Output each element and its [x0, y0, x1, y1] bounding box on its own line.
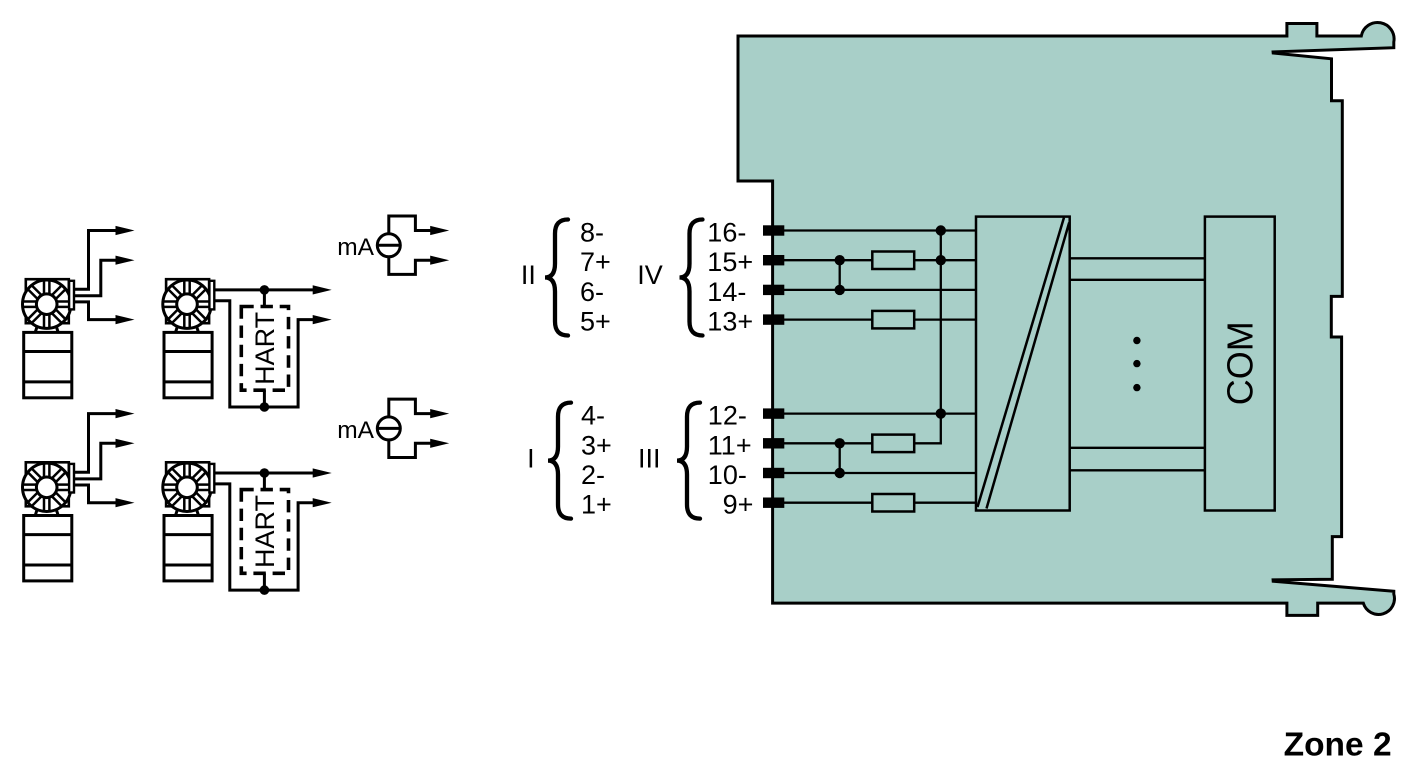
svg-text:mA: mA: [337, 234, 374, 261]
svg-text:16-: 16-: [707, 218, 746, 248]
svg-text:6-: 6-: [580, 277, 604, 307]
svg-text:14-: 14-: [707, 277, 746, 307]
svg-text:II: II: [521, 260, 536, 290]
svg-text:III: III: [638, 443, 661, 473]
svg-text:8-: 8-: [580, 218, 604, 248]
svg-text:5+: 5+: [580, 307, 611, 337]
svg-text:Zone 2: Zone 2: [1284, 727, 1392, 764]
svg-text:10-: 10-: [708, 460, 747, 490]
svg-text:IV: IV: [637, 260, 663, 290]
svg-text:1+: 1+: [581, 490, 612, 520]
svg-text:mA: mA: [337, 417, 374, 444]
svg-text:4-: 4-: [581, 401, 605, 431]
svg-text:I: I: [527, 443, 535, 473]
svg-text:HART: HART: [250, 312, 280, 385]
svg-text:9+: 9+: [723, 490, 754, 520]
svg-text:2-: 2-: [581, 460, 605, 490]
svg-text:7+: 7+: [580, 247, 611, 277]
svg-text:COM: COM: [1219, 321, 1260, 405]
svg-text:11+: 11+: [708, 430, 752, 460]
svg-text:15+: 15+: [707, 247, 753, 277]
svg-text:12-: 12-: [708, 401, 747, 431]
svg-text:HART: HART: [250, 495, 280, 568]
svg-text:13+: 13+: [707, 307, 753, 337]
svg-text:3+: 3+: [581, 430, 612, 460]
